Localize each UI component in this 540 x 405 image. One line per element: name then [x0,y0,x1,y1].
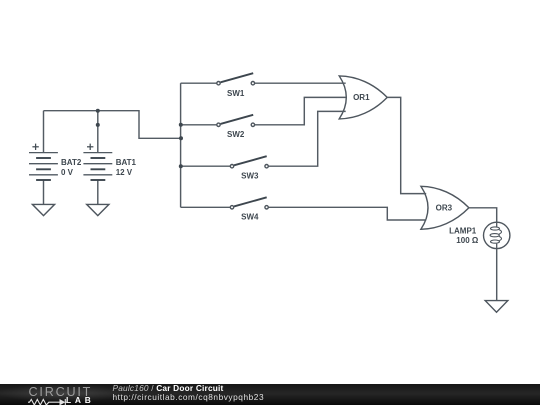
svg-text:OR3: OR3 [436,204,453,213]
switch SW1 [217,73,255,85]
wire bus vertical [180,83,182,207]
wire OR1 output to OR3 input 1 [387,97,426,193]
svg-text:OR1: OR1 [353,93,370,102]
wire bus to SW1 [181,82,219,84]
switch SW2 [217,115,255,127]
wire BAT1 positive lead [97,111,99,153]
logo resistor-diode squiggle [27,397,69,405]
svg-text:SW2: SW2 [227,130,245,139]
OR gate OR3 [421,186,469,229]
wire BAT2 positive lead [43,111,45,153]
footer title line [113,383,224,393]
svg-text:BAT1: BAT1 [116,158,137,167]
wire bus to SW4 [181,206,232,208]
node junction BAT1 lead [96,123,100,127]
svg-text:SW4: SW4 [241,213,259,222]
svg-text:100 Ω: 100 Ω [456,236,479,245]
wire SW2 to OR1 input 2 [253,97,346,124]
svg-text:SW1: SW1 [227,89,245,98]
svg-text:12 V: 12 V [116,168,133,177]
node junction BAT1 top rail [96,109,100,113]
wire bus to SW2 [181,124,219,126]
svg-text:BAT2: BAT2 [61,158,82,167]
wire OR3 output to LAMP1 [469,208,497,222]
svg-text:SW3: SW3 [241,172,259,181]
CircuitLab logo wordmark [29,385,93,399]
wire bus to SW3 [181,165,232,167]
wire BAT2 negative lead [43,180,45,204]
node junction on bus at battery feed [179,136,183,140]
wire battery top rail [44,111,181,139]
ground under BAT2 [32,204,54,215]
switch SW4 [230,197,268,209]
OR gate OR1 [339,76,387,119]
battery BAT1 [83,144,112,180]
wire SW1 to OR1 input 1 [253,82,346,84]
ground under LAMP1 [485,301,508,313]
node junction on bus at SW3 row [179,164,183,168]
ground under BAT1 [87,204,109,215]
footer url line [113,392,265,402]
svg-text:LAMP1: LAMP1 [449,226,477,235]
wire BAT1 negative lead [97,180,99,204]
svg-text:0 V: 0 V [61,168,74,177]
wire SW3 to OR1 input 3 [267,111,346,166]
battery BAT2 [29,144,58,180]
wire SW4 to OR3 input 2 [267,207,427,220]
switch SW3 [230,156,268,168]
lamp LAMP1 [484,222,510,248]
node junction on bus at SW2 row [179,123,183,127]
wire LAMP1 to ground [496,249,498,301]
